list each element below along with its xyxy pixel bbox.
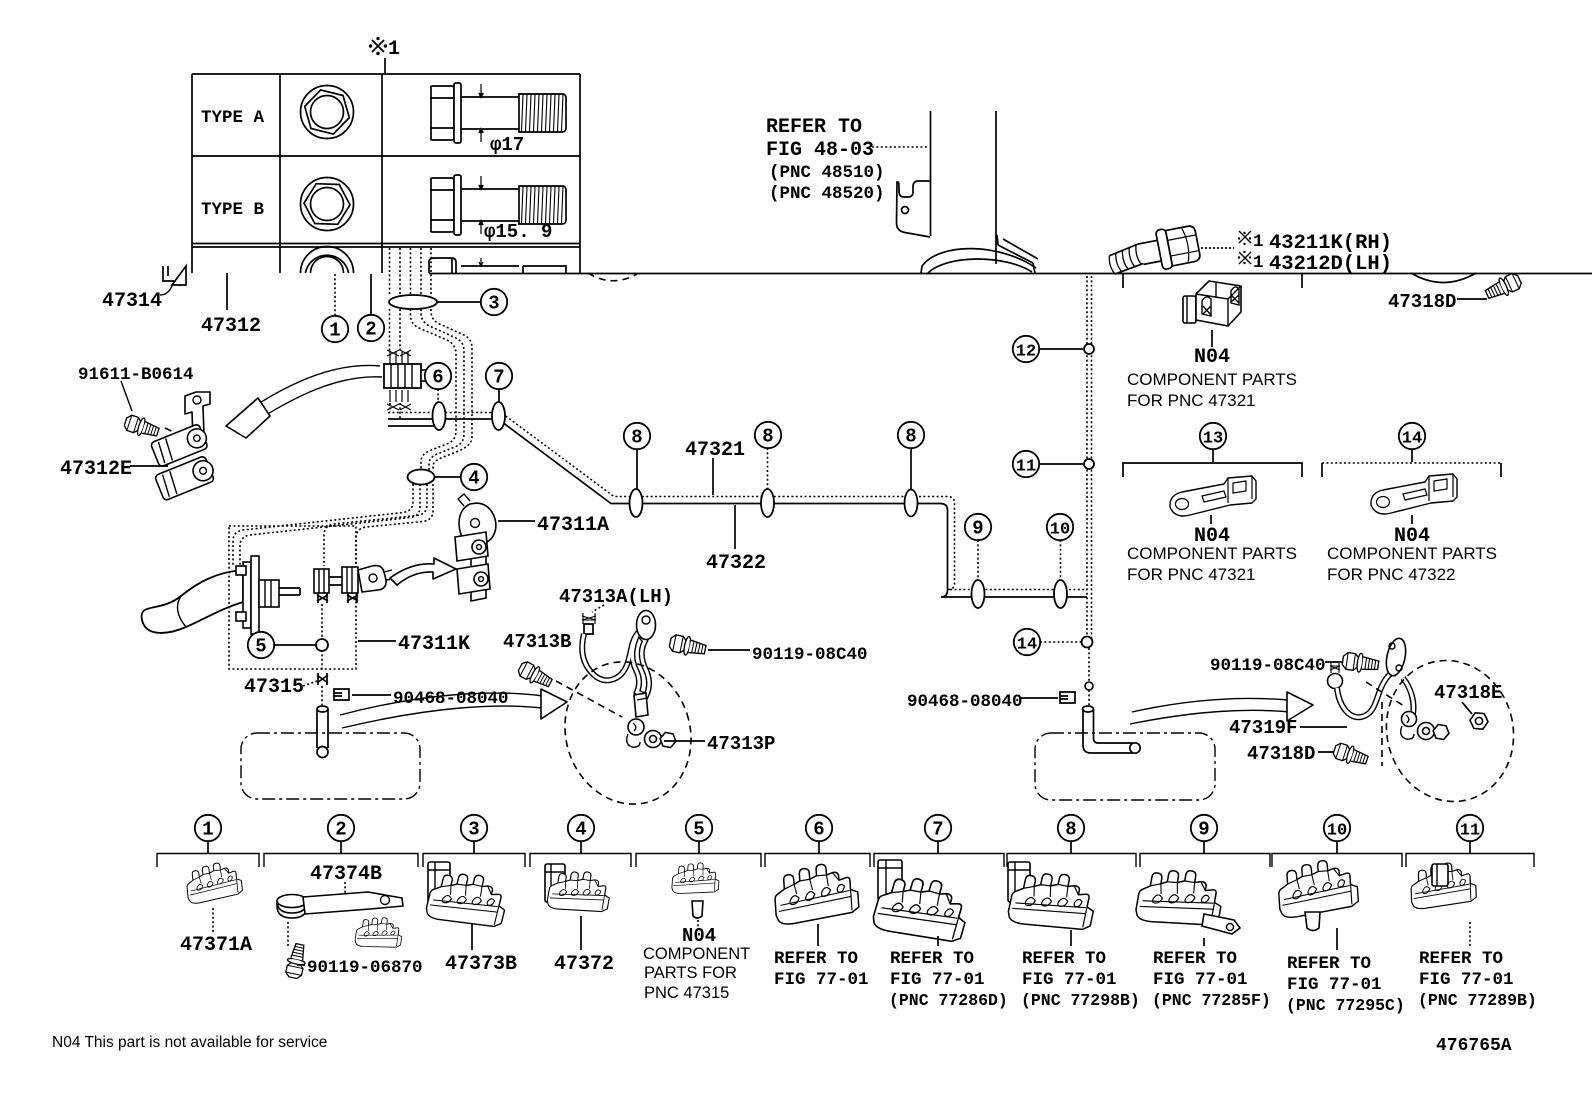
- svg-text:FIG 77-01: FIG 77-01: [774, 970, 869, 990]
- svg-text:47313B: 47313B: [503, 631, 571, 653]
- nodes 12 / 11: [1039, 348, 1083, 350]
- circled item number 9: [1191, 815, 1217, 841]
- svg-text:2: 2: [335, 819, 346, 841]
- dashed ellipse right: [1371, 646, 1529, 816]
- svg-text:FOR PNC 47322: FOR PNC 47322: [1327, 565, 1456, 584]
- svg-text:2: 2: [365, 319, 376, 341]
- svg-text:476765A: 476765A: [1436, 1036, 1512, 1056]
- svg-text:47373B: 47373B: [445, 953, 517, 976]
- dash-dot rounded rect left: [241, 733, 420, 799]
- svg-text:47314: 47314: [102, 290, 162, 313]
- strut bracket hook: [897, 181, 931, 237]
- circled item number 1: [322, 316, 348, 342]
- svg-text:6: 6: [813, 819, 824, 841]
- svg-text:47311A: 47311A: [537, 514, 609, 537]
- svg-text:91611-B0614: 91611-B0614: [78, 365, 194, 385]
- svg-text:φ15. 9: φ15. 9: [484, 221, 552, 243]
- svg-text:9: 9: [972, 518, 983, 540]
- circled item number 2: [328, 815, 354, 841]
- svg-text:COMPONENT PARTS: COMPONENT PARTS: [1127, 544, 1297, 563]
- hex bolt head row B: [301, 178, 354, 231]
- svg-text:47318D: 47318D: [1247, 743, 1315, 765]
- circled5 node: [274, 644, 316, 646]
- svg-text:1: 1: [1253, 232, 1264, 252]
- connector ellipse 3: [389, 295, 437, 309]
- svg-text:47319F: 47319F: [1229, 717, 1297, 739]
- circled item number 10: [1047, 514, 1073, 540]
- svg-text:1: 1: [1253, 253, 1264, 273]
- svg-text:1: 1: [388, 38, 400, 61]
- circled item number 5: [686, 815, 712, 841]
- clamp 47371A: [185, 861, 243, 904]
- tubes E3 S-curve to E4: [411, 309, 457, 470]
- svg-text:(PNC 48520): (PNC 48520): [769, 184, 885, 204]
- svg-text:47322: 47322: [706, 552, 766, 575]
- clamp item11: [1410, 862, 1476, 909]
- circled item number 3: [481, 289, 507, 315]
- circled item number 6: [425, 363, 451, 389]
- bottom bracket item 9: [1140, 842, 1270, 868]
- svg-text:47313A(LH): 47313A(LH): [559, 586, 673, 608]
- label REFER TO FIG 77-01 item 6: [774, 949, 869, 990]
- circled item number 4: [461, 464, 487, 490]
- svg-text:(PNC 77298B): (PNC 77298B): [1021, 991, 1140, 1010]
- circled item number 8: [898, 422, 924, 448]
- strut shock absorber: [931, 111, 997, 264]
- circled item number 13: [1200, 423, 1226, 449]
- 47312E bracket: [185, 392, 210, 440]
- grommet plate: [1383, 637, 1409, 678]
- circled item number 11: [1457, 815, 1483, 841]
- body cut line: [429, 273, 1592, 275]
- svg-text:47318E: 47318E: [1434, 682, 1502, 704]
- svg-text:FIG 48-03: FIG 48-03: [766, 139, 874, 162]
- right brake hose 47319F: [1330, 663, 1340, 673]
- svg-text:COMPONENT PARTS: COMPONENT PARTS: [1327, 544, 1497, 563]
- item 13 bracket: [1123, 449, 1302, 477]
- clip 90468-08040: [334, 689, 349, 700]
- clamp N04 PNC47315: [672, 861, 721, 896]
- circled item number 14: [1399, 423, 1425, 449]
- label REFER TO FIG 77-01 item 9: [1152, 949, 1271, 1010]
- svg-text:8: 8: [905, 426, 916, 448]
- svg-text:1: 1: [329, 320, 340, 342]
- elbow part: [358, 566, 386, 592]
- bottom bracket item 8: [1007, 842, 1136, 868]
- svg-text:PNC 47315: PNC 47315: [644, 984, 729, 1002]
- circled item number 9: [965, 514, 991, 540]
- svg-text:12: 12: [1016, 343, 1036, 362]
- svg-text:REFER TO: REFER TO: [1153, 949, 1237, 969]
- circled item number 8: [624, 423, 650, 449]
- svg-text:4: 4: [575, 819, 586, 841]
- tube ellipses 6,7,8,8,8,9,10: [433, 402, 446, 430]
- svg-text:11: 11: [1016, 458, 1036, 477]
- svg-text:FIG 77-01: FIG 77-01: [1419, 970, 1514, 990]
- mc plunger: [259, 580, 279, 607]
- svg-text:47313P: 47313P: [707, 733, 775, 755]
- circled 1 leader: [334, 274, 336, 315]
- spec table: [192, 74, 580, 273]
- label REFER TO FIG 77-01 item 10: [1286, 954, 1405, 1015]
- svg-text:7: 7: [932, 819, 943, 841]
- 47311A bracket: [459, 503, 496, 601]
- svg-text:5: 5: [693, 819, 704, 841]
- svg-text:47315: 47315: [244, 676, 304, 699]
- arrow to 47311A: [390, 558, 456, 585]
- mc mount plate: [243, 562, 251, 628]
- bottom bracket item 4: [530, 842, 631, 868]
- svg-text:REFER TO: REFER TO: [774, 949, 858, 969]
- 47314 label and symbol: [163, 266, 186, 285]
- svg-text:(PNC 48510): (PNC 48510): [769, 163, 885, 183]
- svg-text:47311K: 47311K: [398, 633, 470, 656]
- svg-text:8: 8: [1065, 819, 1076, 841]
- svg-text:FIG 77-01: FIG 77-01: [890, 970, 985, 990]
- tubes below E4 going left: [233, 484, 413, 567]
- 90119-08C40 bolt right: [1342, 651, 1380, 675]
- wheel arch arc right: [1411, 273, 1476, 283]
- svg-text:3: 3: [488, 293, 499, 315]
- 90119-08C40 bolt left: [668, 633, 707, 659]
- svg-text:14: 14: [1402, 430, 1422, 449]
- circled item number 11: [1013, 451, 1039, 477]
- svg-text:TYPE A: TYPE A: [201, 108, 265, 128]
- 47311K dashed box: [229, 526, 356, 669]
- svg-text:N04: N04: [1194, 346, 1230, 369]
- svg-text:(PNC 77289B): (PNC 77289B): [1418, 991, 1537, 1010]
- bottom bracket item 2: [264, 842, 418, 868]
- circled item number 8: [1058, 815, 1084, 841]
- circled item number 8: [755, 422, 781, 448]
- svg-text:φ17: φ17: [490, 134, 524, 156]
- svg-text:FOR PNC 47321: FOR PNC 47321: [1127, 391, 1256, 410]
- tubes E3 to fitting: [390, 309, 401, 352]
- small fittings under connectors: [317, 593, 358, 603]
- svg-text:7: 7: [493, 367, 504, 389]
- item 14 bracket: [1411, 449, 1413, 462]
- bottom bracket item 5: [636, 842, 761, 868]
- note mark small: [1239, 231, 1251, 264]
- bracket over clamp (on cut line): [1123, 274, 1302, 288]
- clamp item8: [1008, 862, 1030, 902]
- note mark *1: [372, 40, 384, 52]
- bolt side view row B: [430, 175, 566, 235]
- bolt 43211K/43212D: [1105, 223, 1201, 279]
- tube bundle from strut: [389, 248, 391, 296]
- clamp item6: [773, 862, 860, 925]
- svg-text:TYPE B: TYPE B: [201, 200, 265, 220]
- svg-text:47371A: 47371A: [180, 934, 252, 957]
- union fitting: [387, 350, 411, 364]
- master cylinder grip: [142, 570, 243, 633]
- svg-text:9: 9: [1198, 819, 1209, 841]
- svg-text:47374B: 47374B: [310, 863, 382, 886]
- svg-text:REFER TO: REFER TO: [766, 116, 862, 139]
- svg-text:REFER TO: REFER TO: [1419, 949, 1503, 969]
- circled item number 3: [461, 815, 487, 841]
- svg-text:6: 6: [432, 367, 443, 389]
- svg-text:FIG 77-01: FIG 77-01: [1153, 970, 1248, 990]
- label REFER TO FIG 77-01 item 11: [1418, 949, 1537, 1010]
- circled item number 10: [1324, 815, 1350, 841]
- circled item number 2: [358, 315, 384, 341]
- svg-text:90119-08C40: 90119-08C40: [1210, 656, 1326, 676]
- strut spring seat: [921, 235, 1038, 273]
- big arrow to brake hose left: [340, 693, 550, 728]
- clamp item9: [1134, 863, 1226, 934]
- hex bolt head row A: [301, 86, 354, 139]
- circled item number 4: [568, 815, 594, 841]
- svg-text:43211K(RH): 43211K(RH): [1269, 232, 1392, 255]
- svg-text:47312: 47312: [201, 315, 261, 338]
- pin below: [321, 686, 323, 705]
- N04 clamp top right: [1183, 296, 1196, 323]
- svg-text:COMPONENT PARTS: COMPONENT PARTS: [1127, 370, 1297, 389]
- svg-text:FIG 77-01: FIG 77-01: [1022, 970, 1117, 990]
- svg-text:(PNC 77285F): (PNC 77285F): [1152, 991, 1271, 1010]
- svg-text:REFER TO: REFER TO: [1287, 954, 1371, 974]
- circled 2 leader: [370, 274, 372, 315]
- bottom bracket item 6: [765, 842, 870, 868]
- wheel arch arc left (dashed): [588, 273, 637, 281]
- svg-text:47321: 47321: [685, 439, 745, 462]
- circled item number 5: [248, 632, 274, 658]
- 47312E clamp cylinders: [150, 423, 210, 468]
- bottom bracket item 10: [1272, 842, 1402, 868]
- svg-text:REFER TO: REFER TO: [890, 949, 974, 969]
- circled item number 7: [925, 815, 951, 841]
- svg-text:(PNC 77286D): (PNC 77286D): [889, 991, 1008, 1010]
- circled item number 6: [806, 815, 832, 841]
- big arrow right: [1130, 698, 1290, 724]
- bottom bracket item 1: [157, 842, 259, 868]
- dashed ellipse left: [547, 645, 709, 820]
- dash-dot rounded rect right: [1035, 733, 1215, 800]
- vertical dashed tube line: [1087, 276, 1092, 640]
- svg-text:11: 11: [1460, 822, 1480, 841]
- big curved arrow to 47312E: [258, 365, 382, 415]
- svg-text:10: 10: [1050, 521, 1070, 540]
- svg-text:(PNC 77295C): (PNC 77295C): [1286, 996, 1405, 1015]
- bottom bracket item 7: [874, 842, 1004, 868]
- hex bolt head row C partial: [301, 247, 354, 274]
- svg-text:14: 14: [1017, 636, 1037, 655]
- svg-text:8: 8: [762, 426, 773, 448]
- svg-text:COMPONENT: COMPONENT: [643, 945, 750, 963]
- svg-text:10: 10: [1327, 822, 1347, 841]
- svg-text:REFER TO: REFER TO: [1022, 949, 1106, 969]
- bolt side view row A: [430, 83, 566, 143]
- dotted continuation to node and 47315: [321, 604, 323, 672]
- banjo top: [637, 611, 656, 640]
- svg-text:90119-06870: 90119-06870: [307, 958, 423, 978]
- clamp 47373B: [428, 862, 450, 904]
- bolt row C partial: [429, 258, 566, 273]
- svg-text:FOR PNC 47321: FOR PNC 47321: [1127, 565, 1256, 584]
- svg-text:47372: 47372: [554, 953, 614, 976]
- svg-text:5: 5: [255, 636, 266, 658]
- bottom bracket item 11: [1406, 842, 1534, 868]
- label REFER TO FIG 77-01 item 7: [889, 949, 1008, 1010]
- connector blocks inside box: [314, 569, 329, 593]
- circled item number 7: [486, 363, 512, 389]
- svg-text:43212D(LH): 43212D(LH): [1269, 253, 1392, 276]
- bottom bracket item 3: [423, 842, 525, 868]
- clamp 47372: [545, 864, 565, 902]
- lower eyelets right: [1402, 712, 1417, 727]
- clamp item10: [1277, 858, 1359, 918]
- circled item number 12: [1013, 336, 1039, 362]
- clamp item7: [878, 860, 902, 900]
- circled item number 14: [1014, 629, 1040, 655]
- svg-text:47312E: 47312E: [60, 458, 132, 481]
- svg-text:13: 13: [1203, 430, 1223, 449]
- svg-text:PARTS FOR: PARTS FOR: [644, 964, 737, 982]
- label REFER TO FIG 77-01 item 8: [1021, 949, 1140, 1010]
- svg-text:N04: N04: [682, 925, 716, 947]
- lower fitting + eyelets: [634, 693, 648, 717]
- svg-text:1: 1: [202, 819, 213, 841]
- svg-text:N04 This part is not available: N04 This part is not available for servi…: [52, 1034, 327, 1051]
- main tube runs: 47321 dotted / 47322 solid: [388, 413, 1087, 590]
- svg-text:3: 3: [468, 819, 479, 841]
- L-tube: [1083, 706, 1141, 753]
- svg-text:4: 4: [468, 468, 479, 490]
- svg-text:90119-08C40: 90119-08C40: [752, 645, 868, 665]
- circled item number 1: [195, 815, 221, 841]
- svg-text:8: 8: [631, 427, 642, 449]
- leaders from circles: [437, 389, 439, 402]
- svg-text:90468-08040: 90468-08040: [907, 692, 1023, 712]
- svg-text:47318D: 47318D: [1388, 291, 1456, 313]
- connector ellipse 4: [408, 470, 435, 485]
- svg-text:FIG 77-01: FIG 77-01: [1287, 975, 1382, 995]
